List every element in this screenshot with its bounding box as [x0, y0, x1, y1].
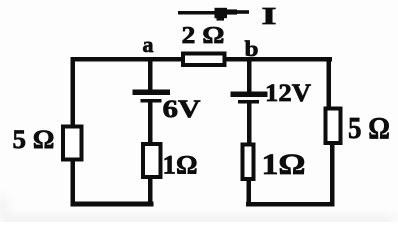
wire left vertical upper [71, 57, 76, 127]
svg-text:5 Ω: 5 Ω [13, 125, 55, 154]
resistor 1ohm middle [143, 144, 161, 177]
current arrow head mid step [227, 9, 237, 14]
svg-text:b: b [245, 36, 259, 61]
wire left vertical lower [71, 159, 76, 206]
battery 6V long plate [133, 90, 171, 96]
svg-text:2 Ω: 2 Ω [182, 23, 225, 49]
svg-text:I: I [262, 4, 277, 30]
wire right-middle branch lower [247, 179, 252, 204]
wire top right (node b run) [224, 57, 332, 62]
svg-text:a: a [143, 32, 154, 57]
wire bottom left loop [71, 202, 154, 207]
svg-text:12V: 12V [265, 80, 311, 107]
current arrow head block [215, 8, 228, 18]
wire right-middle branch mid [247, 102, 252, 144]
resistor 2ohm (top, between a and b) [183, 54, 225, 66]
battery 12V long plate [231, 92, 268, 98]
resistor 1ohm right-middle [243, 145, 254, 180]
resistor 5ohm right [326, 109, 341, 144]
resistor 5ohm left [63, 127, 82, 160]
wire middle branch upper [148, 59, 153, 91]
svg-text:6V: 6V [163, 96, 201, 123]
wire bottom right loop [246, 202, 335, 207]
wire right vertical upper [327, 57, 332, 109]
current arrow shaft [178, 11, 222, 15]
battery 12V short plate [238, 100, 259, 104]
wire top left (node a run) [71, 57, 183, 62]
battery 6V short plate [141, 99, 162, 103]
current arrow head tip bar [237, 10, 249, 14]
wire right-middle branch upper [247, 59, 252, 93]
wire middle branch mid [148, 101, 153, 145]
svg-text:1Ω: 1Ω [262, 148, 306, 181]
wire middle branch lower [148, 177, 153, 203]
svg-text:5 Ω: 5 Ω [348, 110, 390, 145]
svg-text:1Ω: 1Ω [163, 151, 198, 180]
wire right vertical lower [330, 143, 335, 204]
current arrow head lower blob [217, 18, 225, 21]
